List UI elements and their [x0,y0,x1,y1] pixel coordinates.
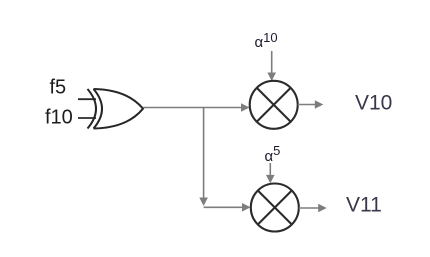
wire f5 input stub [78,98,96,100]
XOR gate U1 [88,89,144,129]
wire M2 output [299,204,327,213]
wire f10 input stub [78,117,96,119]
wire M1 output [298,100,324,109]
svg-text:V11: V11 [346,194,382,217]
multiplier M1 [250,81,298,129]
svg-text:α5: α5 [265,143,281,165]
svg-text:f5: f5 [50,77,67,99]
svg-text:f10: f10 [45,107,73,129]
wire branch down from node [199,108,208,207]
multiplier M2 [251,184,299,232]
wire XOR output to multiplier M1 [143,103,250,112]
wire branch to multiplier M2 [204,203,251,212]
svg-text:V10: V10 [355,92,392,115]
wire alpha^5 into M2 [266,163,275,183]
wire alpha^10 into M1 [267,51,276,81]
svg-text:α10: α10 [255,30,278,51]
